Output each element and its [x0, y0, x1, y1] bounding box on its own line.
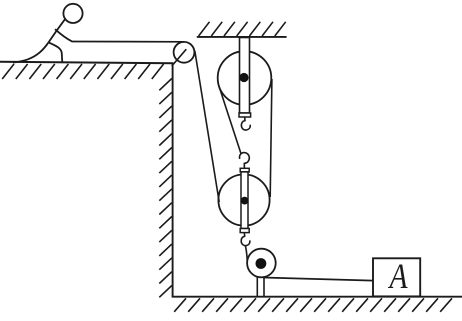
- ceiling hatching: [199, 22, 286, 36]
- fixed pulley bottom hook: [241, 117, 250, 130]
- cliff wall hatching: [159, 79, 172, 298]
- floor pulley support post: [257, 276, 264, 296]
- movable pulley top hook: [240, 153, 250, 169]
- rope from floor pulley to block A: [263, 278, 373, 281]
- movable pulley bracket bottom cap: [240, 229, 249, 233]
- movable pulley bottom hook: [241, 233, 250, 246]
- fixed pulley bracket: [240, 38, 250, 114]
- floor pulley wheel: [247, 249, 276, 278]
- upper ground hatching: [2, 64, 163, 79]
- rope from hands to cliff pulley: [72, 41, 185, 43]
- cliff wall line: [172, 63, 174, 297]
- movable pulley axle: [241, 197, 249, 205]
- fixed pulley wheel: [218, 51, 272, 105]
- rope from cliff pulley down to movable pulley: [195, 51, 219, 202]
- floor pulley axle: [256, 258, 267, 269]
- fixed pulley axle: [239, 73, 248, 82]
- person head: [63, 4, 82, 23]
- svg-text:A: A: [388, 257, 409, 296]
- person arm: [55, 29, 72, 41]
- floor hatching: [174, 298, 452, 312]
- person torso: [49, 19, 65, 42]
- person front leg: [49, 42, 63, 62]
- cliff pulley mounting strut: [172, 49, 187, 66]
- person rear leg and foot: [13, 42, 48, 62]
- floor surface line: [172, 296, 462, 298]
- rope from movable pulley hook to floor pulley: [245, 245, 247, 261]
- ceiling line: [197, 36, 287, 38]
- cliff edge pulley wheel: [174, 42, 195, 63]
- rope from fixed pulley right side down to movable pulley right side: [270, 79, 272, 197]
- fixed pulley bracket end cap: [239, 113, 251, 117]
- movable pulley wheel: [218, 174, 269, 225]
- rope from fixed pulley left side to movable pulley hook: [219, 86, 241, 153]
- block A: [373, 258, 420, 296]
- upper ground surface line: [0, 62, 173, 63]
- movable pulley bracket: [241, 172, 248, 229]
- movable pulley bracket top cap: [240, 168, 249, 172]
